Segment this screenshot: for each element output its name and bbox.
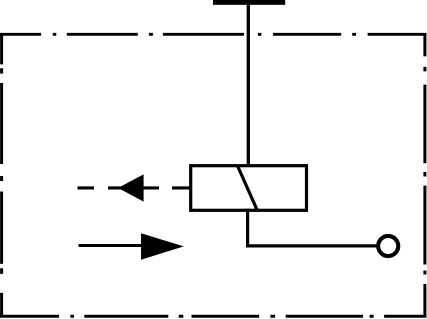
- diagonal lever inside box: [238, 166, 258, 210]
- solid arrow head (triangle pointing right): [141, 233, 184, 260]
- solid direction arrow line (pointing right): [79, 244, 144, 247]
- enclosure boundary top (dash-dot chain line): [0, 33, 427, 36]
- wire, vertical below box: [246, 209, 249, 248]
- wire, horizontal to terminal: [246, 244, 378, 247]
- transducer box U1: [191, 166, 307, 211]
- dashed-arrow head (solid triangle pointing left): [118, 174, 144, 201]
- enclosure boundary left (dash-dot chain line): [0, 33, 3, 318]
- enclosure boundary bottom (dash-dot chain line): [0, 315, 427, 318]
- actuator plate (top bar): [213, 0, 285, 5]
- terminal circle: [378, 236, 398, 256]
- dashed actuation arrow line (left-pointing, dash segments): [78, 186, 191, 189]
- mechanical link wire, vertical from plate to box: [247, 2, 250, 167]
- enclosure boundary right (dash-dot chain line): [423, 33, 426, 318]
